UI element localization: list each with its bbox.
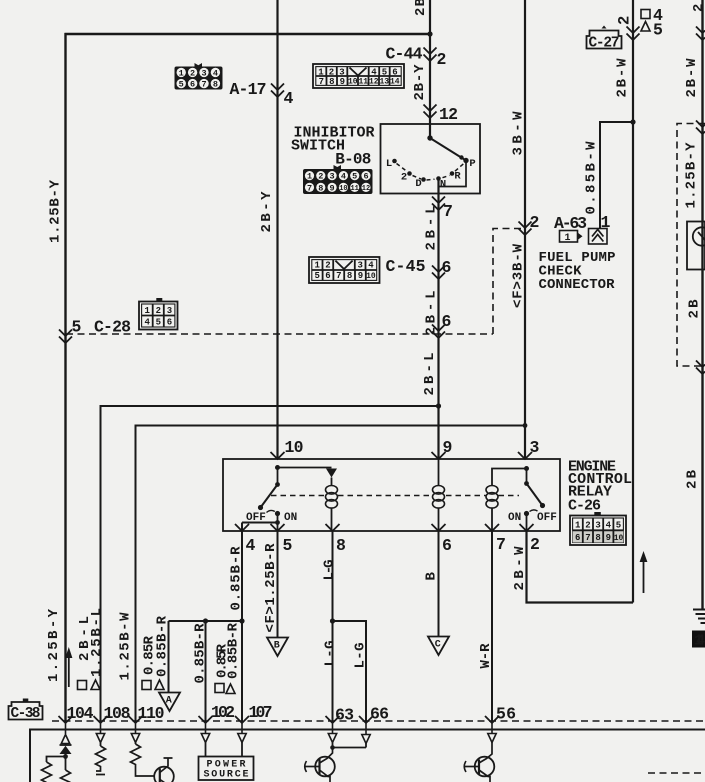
svg-text:P: P [469,158,475,170]
svg-text:10: 10 [614,534,624,543]
svg-text:2B-Y: 2B-Y [259,191,275,233]
svg-text:9: 9 [358,271,363,281]
svg-text:5: 5 [653,21,663,40]
svg-text:C-28: C-28 [94,318,131,337]
svg-text:5: 5 [156,318,161,328]
inhibitor switch box [381,124,481,194]
wire 2B-Y vertical A-17 to relay pin 10 [276,0,278,459]
svg-text:2B-L: 2B-L [424,206,440,251]
wire branch 3B-W to pin 110 [136,426,526,722]
svg-text:2: 2 [156,306,161,316]
svg-text:6: 6 [575,533,580,543]
page ref 14 black box [692,631,705,648]
wire relay pin2 2B-W loop [527,531,634,603]
crossing inhibitor pin 7 [432,197,445,211]
inhibitor contact 2 [407,171,412,176]
svg-text:7: 7 [319,77,324,87]
ECU link 63-66 [333,743,367,748]
svg-text:A-63: A-63 [554,214,587,233]
svg-text:3: 3 [167,306,172,316]
svg-text:2B-W: 2B-W [684,58,700,98]
svg-text:2: 2 [325,261,330,271]
svg-text:B: B [274,641,280,652]
ECU POWER SOURCE [201,721,209,743]
relay1 branch to diode [278,467,332,469]
svg-text:5: 5 [283,536,293,555]
svg-text:7: 7 [585,533,590,543]
wire branch L-G to pin 66 [333,621,367,721]
arrow up on wire 104 [65,647,72,658]
svg-text:7: 7 [307,183,312,193]
label triangle 5 top right [641,22,650,32]
svg-text:OFF: OFF [537,512,557,524]
svg-text:8: 8 [595,533,600,543]
crossing C-44 pin 2 [424,48,437,62]
arrow up beside 2B-W [643,557,645,593]
connector C-45 [309,257,380,283]
svg-text:L-G: L-G [322,560,338,581]
svg-text:2: 2 [401,172,407,184]
svg-text:12: 12 [362,185,370,193]
dashed boundary vertical [493,229,521,335]
ground symbol right [693,610,705,624]
relay2 branch to coil [492,469,527,486]
svg-text:1.25B-L: 1.25B-L [89,608,105,677]
svg-text:4: 4 [368,261,374,271]
svg-text:6: 6 [442,536,452,555]
relay2 coil [486,486,498,509]
svg-text:L: L [386,158,392,170]
inhibitor dashed arc [397,164,464,181]
svg-text:3: 3 [201,68,206,78]
svg-text:2: 2 [318,172,323,182]
svg-text:8: 8 [347,271,352,281]
connector A-17 [175,63,223,90]
wire top horizontal 1.25B-Y feed [65,33,431,35]
crossing A-63 pin 2 [519,222,532,236]
svg-text:10: 10 [339,185,347,193]
label 0.85B-R pin110 with triangle [155,680,164,690]
svg-text:13: 13 [379,78,389,87]
svg-text:C-38: C-38 [11,706,41,722]
svg-text:9: 9 [330,183,335,193]
svg-text:2: 2 [691,4,705,12]
svg-text:12: 12 [439,105,458,124]
svg-text:R: R [454,171,461,183]
wire relay pin6 B to triangle C [438,531,440,636]
svg-text:63: 63 [335,706,354,725]
inhibitor wiper to P [430,138,466,161]
svg-text:10: 10 [285,438,304,457]
svg-text:9: 9 [340,77,345,87]
svg-text:C-26: C-26 [568,498,601,515]
svg-text:3: 3 [357,261,362,271]
svg-text:4: 4 [213,68,218,78]
connector C-28 [139,298,178,330]
svg-text:11: 11 [358,78,368,87]
svg-text:4: 4 [284,89,294,108]
svg-text:14: 14 [694,633,705,650]
svg-text:2B: 2B [413,0,429,16]
junction 3B-W branch [523,423,528,428]
svg-text:0.85B-W: 0.85B-W [584,141,600,215]
wire 0.85B-R horizontal split [169,621,243,721]
triangle C [428,637,449,656]
svg-text:6: 6 [190,80,195,90]
svg-text:2B-W: 2B-W [615,58,631,98]
crossing inhibitor pin 12 [424,105,437,119]
svg-text:2: 2 [530,213,540,232]
ECU resistor branch at 104 [47,757,66,763]
triangle A [159,693,180,712]
svg-text:N: N [440,179,446,191]
crossing C-27 right wire [696,27,705,41]
dashed ECU boundary right low [648,772,705,774]
junction 0.85B-W branch [630,119,635,124]
svg-text:4: 4 [246,536,256,555]
svg-text:56: 56 [496,705,516,724]
svg-text:5: 5 [616,520,621,530]
svg-text:3: 3 [530,438,540,457]
svg-text:110: 110 [138,704,165,723]
svg-text:0.85B-R: 0.85B-R [226,622,242,679]
relay2 switch [526,469,528,484]
svg-text:10: 10 [348,78,358,87]
junction 102 tap [203,618,208,623]
svg-text:2B: 2B [685,469,701,489]
svg-text:3: 3 [595,520,600,530]
svg-text:12: 12 [369,78,379,87]
label 1.25B-L pin108 with triangle [91,680,100,690]
svg-text:4: 4 [371,67,377,77]
ECU pin triangle 104 [61,721,69,744]
ECU transistor T1 [154,758,174,782]
label 0.85R pin107 with square [215,684,224,693]
svg-text:6: 6 [392,67,397,77]
svg-text:1.25B-W: 1.25B-W [118,612,134,681]
fuel pump component in dashed box [687,0,705,270]
inhibitor contact N [436,176,441,181]
ECU diode at 104 [65,744,67,746]
label 2B-L pin108 with square [78,681,87,690]
inhibitor position letters [386,158,476,191]
connector A-63 terminal 1 (male chevron box) [589,229,608,245]
svg-text:B-08: B-08 [335,151,371,169]
svg-text:7: 7 [443,202,453,221]
svg-text:1.25B-Y: 1.25B-Y [48,179,64,243]
svg-text:6: 6 [167,318,172,328]
relay2 junction [524,466,529,471]
svg-text:5: 5 [314,271,319,281]
svg-text:C-45: C-45 [386,257,426,276]
wire 2B-W far right to ground [701,0,703,609]
svg-text:C-44: C-44 [386,45,423,64]
svg-text:9: 9 [443,438,453,457]
inhibitor contact L [392,159,397,164]
connector C-27 box [587,26,622,52]
svg-text:10: 10 [366,272,376,281]
svg-text:L-G: L-G [353,643,369,669]
svg-text:1.25B-Y: 1.25B-Y [46,608,62,682]
svg-text:1: 1 [601,213,611,232]
svg-text:6: 6 [442,258,452,277]
svg-text:2B-Y: 2B-Y [412,64,428,101]
crossing dashed pin 6 [432,325,445,339]
svg-text:A-17: A-17 [230,80,267,99]
svg-text:OFF: OFF [246,512,266,524]
svg-text:<F>3B-W: <F>3B-W [511,243,527,308]
svg-text:2: 2 [190,68,195,78]
svg-text:2B: 2B [687,299,703,319]
svg-text:8: 8 [329,77,334,87]
inhibitor P to N link [439,161,467,187]
wire 3B-W vertical [524,0,526,459]
svg-text:6: 6 [442,312,452,331]
wire 2B-L inhibitor N to relay pin 9 [437,179,439,459]
svg-text:SOURCE: SOURCE [204,770,249,781]
connector C-44 [313,64,404,88]
relay coil on pin 9 wire [438,459,440,531]
wire relay pin4 0.85B-R [242,523,278,622]
wire branch 2B-L to pin 108 [101,406,439,721]
relay1 coil [326,486,338,509]
dashed ECU boundary [52,720,705,722]
wire 2B / 2B-Y center to inhibitor switch pin 12 [429,0,431,138]
connector B-08 [303,165,373,194]
svg-text:L-G: L-G [323,641,339,667]
dashed fuel pump box [677,124,705,367]
ECU transistor T3 [464,743,494,782]
svg-text:ON: ON [284,512,297,524]
ECU pin chevrons [59,716,500,723]
svg-text:2B-L: 2B-L [424,291,440,336]
svg-text:1: 1 [179,68,184,78]
svg-text:8: 8 [318,183,323,193]
junction pin4 wire [239,618,244,623]
svg-text:1: 1 [575,520,581,530]
wire relay pin5 (F)1.25B-R to triangle B [277,531,279,637]
svg-text:1: 1 [144,306,150,316]
inhibitor contact R [450,171,455,176]
svg-text:1: 1 [314,261,320,271]
svg-text:107: 107 [249,703,273,722]
svg-text:C-27: C-27 [589,36,620,52]
relay1 diode [326,469,337,478]
svg-text:4: 4 [144,318,150,328]
connector A-63 terminal 1 (female) [560,231,583,245]
svg-text:9: 9 [606,533,611,543]
inhibitor contact P [463,158,468,163]
crossing fuel pump box bottom [696,361,705,375]
svg-text:6: 6 [325,271,330,281]
crossing C-28 pin 5 [59,330,72,344]
crossing C-27 pin 4/5 [627,27,640,41]
junction L-G [330,618,335,623]
power source box [199,757,254,781]
svg-text:108: 108 [104,704,131,723]
svg-text:7: 7 [336,271,341,281]
wire 0.85B-W branch to fuel pump check connector [600,122,633,228]
svg-text:8: 8 [213,80,218,90]
svg-text:2: 2 [616,16,634,25]
wire relay pin7 W-R to pin 56 [491,531,493,721]
svg-text:11: 11 [350,185,358,193]
ECU pin triangle 108 [96,721,104,743]
svg-text:2: 2 [530,535,540,554]
relay pin-in chevrons [271,452,533,459]
svg-text:5: 5 [179,80,184,90]
svg-text:ON: ON [508,512,521,524]
ECU pin triangle 56 [488,721,496,743]
dashed harness boundary C-28 [66,333,493,335]
svg-text:3: 3 [330,172,335,182]
relay1 junction [275,465,280,470]
ECU resistor at 110 [135,743,137,745]
svg-text:D: D [415,178,421,190]
relay box [223,459,560,531]
svg-text:66: 66 [370,705,389,724]
svg-text:0.85B-R: 0.85B-R [155,615,171,677]
svg-text:CONNECTOR: CONNECTOR [539,277,616,293]
svg-text:8: 8 [336,536,346,555]
crossing C-45 pin 6 [432,266,445,280]
ECU box left [29,729,31,782]
connector C-38 box [9,699,43,723]
junction top feed [427,31,432,36]
crossing A-17 pin 4 [271,84,284,98]
svg-text:5: 5 [72,318,82,337]
svg-text:2: 2 [437,50,447,69]
svg-text:102: 102 [211,703,235,722]
relay1 switch [277,468,279,485]
svg-text:7: 7 [496,535,506,554]
svg-text:1.25B-Y: 1.25B-Y [684,142,700,209]
ECU transistor T2 [305,748,335,782]
svg-text:W-R: W-R [478,643,494,669]
ECU pin triangle 63 [328,721,336,743]
svg-text:4: 4 [341,172,346,182]
wire left 1.25B-Y vertical to pin 104 [64,33,66,721]
svg-text:0.85B-R: 0.85B-R [193,623,209,684]
svg-text:6: 6 [363,172,368,182]
svg-text:104: 104 [67,704,94,723]
wire relay pin8 L-G to pin 63 [332,531,334,721]
connector C-26 [570,512,626,545]
wire 2B-W main vertical right [632,0,634,603]
wire 0.85B-R to pin 102 [205,621,207,721]
label 0.85R pin110 with square [142,681,151,690]
svg-text:1: 1 [565,233,571,244]
inhibitor common node [427,135,432,140]
svg-text:B: B [424,572,440,581]
inhibitor contact D [421,177,426,182]
svg-text:7: 7 [201,80,206,90]
wire to triangle A [168,621,170,692]
ECU pin triangle 110 [131,721,139,743]
svg-text:5: 5 [352,172,357,182]
label 0.85B-R pin107 with triangle [226,684,235,694]
ECU pin triangle 66 [362,721,370,744]
svg-text:C: C [435,640,441,651]
svg-text:1: 1 [307,172,312,182]
svg-text:0.85B-R: 0.85B-R [229,546,245,611]
svg-text:2: 2 [585,520,590,530]
svg-text:2B-L: 2B-L [422,353,438,396]
inhibitor wiper dot [459,155,463,159]
ECU resistor at 108 [100,743,102,747]
triangle B [267,638,288,657]
svg-text:<F>1.25B-R: <F>1.25B-R [263,543,279,633]
svg-text:4: 4 [606,520,612,530]
relay pin-out chevrons [235,524,534,531]
crossing fuel pump box top [696,121,705,135]
svg-text:A: A [166,696,172,707]
junction 2B-L branch [436,403,441,408]
svg-text:14: 14 [390,78,400,87]
ECU box top [30,729,705,731]
relay mechanical dashed link [271,495,519,497]
svg-text:5: 5 [382,67,387,77]
label square 4 top right [641,10,650,19]
